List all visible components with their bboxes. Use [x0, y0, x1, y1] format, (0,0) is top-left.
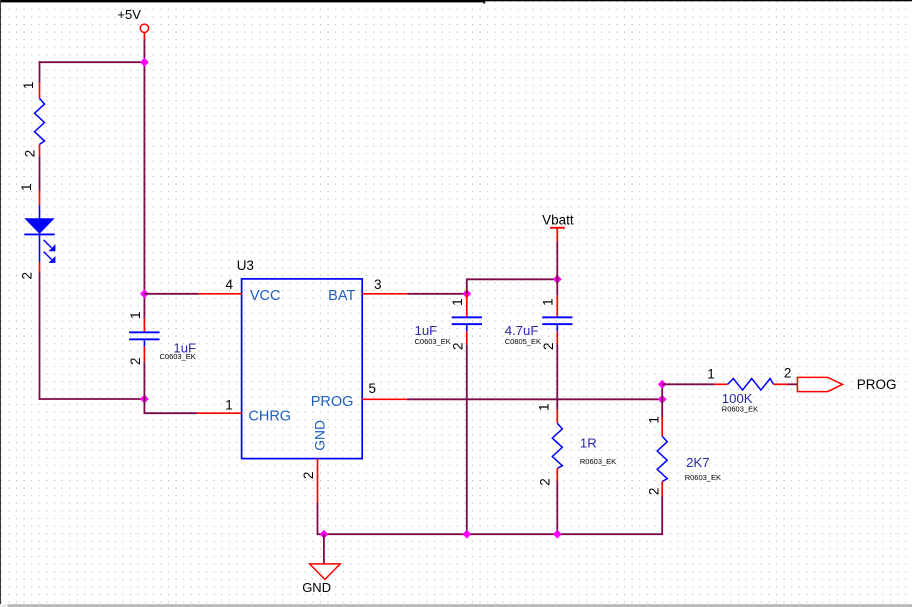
wire left branch upper (39,62)-(39,82)	[39, 61, 41, 82]
junction at +5V branch	[140, 58, 149, 67]
resistor R3 pin 2 stub	[661, 482, 663, 496]
capacitor C1 lower lead	[143, 340, 145, 347]
svg-text:5: 5	[369, 381, 377, 396]
LED D1 anode lead	[39, 205, 41, 218]
svg-text:PROG: PROG	[311, 394, 354, 410]
svg-text:1: 1	[707, 367, 715, 382]
junction ground rail at R2	[553, 530, 562, 539]
window left border	[0, 0, 1, 604]
resistor R3 2K7 pin 1 stub	[661, 417, 663, 436]
resistor R1 100K pin 1 stub	[715, 383, 728, 385]
svg-text:+5V: +5V	[117, 7, 141, 22]
wire stub into PROG port	[788, 383, 797, 385]
LED D1 pin 1 stub	[39, 191, 41, 206]
junction ground rail at C2	[462, 530, 471, 539]
IC U3 pin 4 stub (VCC)	[199, 293, 242, 295]
wire PROG horizontal (407,399)-(662,399)	[407, 398, 662, 400]
junction ground rail at GND symbol	[320, 530, 329, 539]
IC U3 pin 3 stub (BAT)	[362, 293, 407, 295]
junction 100K node	[658, 380, 667, 389]
window top border	[0, 0, 912, 4]
resistor R1 pin 2 stub	[774, 383, 789, 385]
supply Vbatt pin stub	[556, 229, 558, 242]
wire between resistor and LED	[39, 157, 41, 191]
wire BAT node up and over to Vbatt (467,294)-(467,279)-(557,279)	[467, 279, 558, 294]
svg-text:Vbatt: Vbatt	[542, 213, 574, 228]
wire 2K7 branch vertical (662,399)-(662,417)	[661, 399, 663, 417]
port PROG flag symbol	[797, 377, 842, 391]
resistor R-LED zigzag body	[35, 98, 45, 144]
resistor R-LED pin 2 stub	[39, 144, 41, 156]
svg-text:VCC: VCC	[250, 288, 281, 304]
LED D1 triangle	[24, 218, 54, 234]
svg-text:2: 2	[538, 478, 553, 486]
wire top horizontal (39,62)-(144,62)	[39, 61, 145, 63]
svg-text:CHRG: CHRG	[248, 408, 291, 424]
capacitor C3 4.7uF pin 1 stub	[556, 296, 558, 317]
capacitor C3 bottom plate	[542, 323, 572, 325]
wire GND pin drop (317,502)-(317,534)	[317, 503, 319, 536]
svg-text:1: 1	[225, 398, 233, 413]
svg-text:2: 2	[451, 342, 466, 350]
junction Vbatt node	[553, 275, 562, 284]
capacitor C1 1uF pin 1 stub	[143, 318, 145, 331]
supply +5V circle symbol	[140, 24, 148, 32]
resistor R1 100K zigzag body	[728, 379, 774, 391]
svg-text:C0805_EK: C0805_EK	[505, 337, 541, 346]
capacitor C2 top plate	[452, 316, 482, 318]
LED D1 light arrow 1	[44, 240, 56, 251]
capacitor C2 pin 2 stub	[466, 331, 468, 344]
svg-text:4.7uF: 4.7uF	[505, 323, 539, 338]
LED D1 cathode lead	[39, 234, 41, 262]
capacitor C2 lower lead	[466, 325, 468, 331]
resistor R-LED pin 1 stub	[39, 83, 41, 99]
svg-text:PROG: PROG	[857, 377, 897, 392]
capacitor C1 top plate	[129, 331, 159, 333]
svg-text:4: 4	[225, 277, 233, 292]
svg-text:1uF: 1uF	[415, 323, 438, 338]
junction CHRG node	[140, 395, 149, 404]
svg-text:2: 2	[22, 150, 37, 158]
LED D1 pin 2 stub	[39, 263, 41, 272]
svg-text:2: 2	[647, 488, 662, 496]
wire 100K horizontal (662,384)-(715,384)	[662, 383, 714, 385]
svg-text:U3: U3	[237, 258, 254, 273]
svg-text:GND: GND	[312, 420, 327, 451]
LED D1 light arrow 2	[44, 252, 56, 263]
wire left branch lower (39,271)-(39,399)	[39, 272, 41, 400]
wire GND symbol tap (324,534)-(324,564)	[323, 534, 325, 564]
resistor R2 1R pin 1 stub	[556, 410, 558, 424]
supply +5V pin stub	[143, 33, 145, 40]
svg-text:C0603_EK: C0603_EK	[160, 352, 196, 361]
IC U3 pin 5 stub (PROG)	[362, 398, 407, 400]
junction PROG node	[658, 395, 667, 404]
wire ground rail (317,534)-(662,534)	[318, 533, 663, 535]
svg-text:BAT: BAT	[328, 288, 355, 304]
bottom status bar	[0, 604, 912, 607]
svg-text:GND: GND	[302, 580, 331, 595]
wire +5V vertical (144,39)-(144,318)	[143, 39, 145, 318]
capacitor C2 bottom plate	[452, 323, 482, 325]
svg-text:2: 2	[128, 358, 143, 366]
svg-text:2: 2	[301, 472, 316, 480]
IC U3 pin 2 stub (GND)	[317, 459, 319, 503]
wire VCC horizontal (144,294)-(199,294)	[144, 293, 198, 295]
wire BAT horizontal (408,294)-(467,294)	[408, 293, 467, 295]
ground symbol triangle	[310, 564, 341, 580]
svg-text:1: 1	[647, 416, 662, 424]
svg-text:2: 2	[784, 366, 792, 381]
wire bottom-left horizontal (39,399)-(144,399)	[39, 398, 145, 400]
supply Vbatt bar symbol	[550, 227, 565, 229]
junction VCC node	[140, 289, 149, 298]
capacitor C3 top plate	[542, 316, 572, 318]
capacitor C3 pin 2 stub	[556, 331, 558, 344]
svg-text:R0603_EK: R0603_EK	[580, 457, 616, 466]
svg-text:1: 1	[541, 298, 556, 306]
LED D1 cathode bar	[24, 233, 54, 235]
resistor R3 2K7 zigzag body	[657, 436, 667, 482]
svg-text:1: 1	[19, 184, 34, 192]
capacitor C3 lower lead	[556, 325, 558, 331]
svg-text:2: 2	[541, 342, 556, 350]
resistor R2 pin 2 stub	[556, 468, 558, 480]
junction BAT node	[462, 289, 471, 298]
wire CHRG drop (144,399)-(144,413) and across to IC	[144, 399, 197, 413]
wire C3 bottom down through PROG crossing (557,344)-(557,410)	[556, 344, 558, 409]
op-amp U3 charger IC body	[242, 279, 363, 459]
wire PROG node riser (662,399)-(662,384)	[661, 384, 663, 399]
svg-text:1: 1	[450, 298, 465, 306]
svg-text:1R: 1R	[580, 436, 597, 451]
svg-text:C0603_EK: C0603_EK	[415, 337, 451, 346]
wire R2 bottom to ground rail	[556, 481, 558, 534]
svg-text:2K7: 2K7	[686, 455, 709, 470]
wire C2 bottom to ground rail	[466, 344, 468, 534]
capacitor C2 1uF pin 1 stub	[466, 294, 468, 317]
IC U3 pin 1 stub (CHRG)	[197, 412, 241, 414]
capacitor C1 bottom plate	[129, 338, 159, 340]
svg-text:1: 1	[536, 404, 551, 412]
svg-text:3: 3	[374, 277, 382, 292]
wire R3 bottom to ground rail corner	[661, 496, 663, 535]
capacitor C1 pin 2 stub	[143, 347, 145, 362]
svg-text:R0603_EK: R0603_EK	[722, 405, 758, 414]
svg-text:1: 1	[21, 82, 36, 90]
resistor R2 1R zigzag body	[552, 423, 562, 468]
svg-text:1: 1	[128, 311, 143, 319]
svg-text:2: 2	[20, 272, 35, 280]
wire Vbatt vertical (557,241)-(557,296)	[556, 241, 558, 296]
wire C1 bottom to CHRG node	[143, 361, 145, 399]
svg-text:R0603_EK: R0603_EK	[685, 473, 721, 482]
